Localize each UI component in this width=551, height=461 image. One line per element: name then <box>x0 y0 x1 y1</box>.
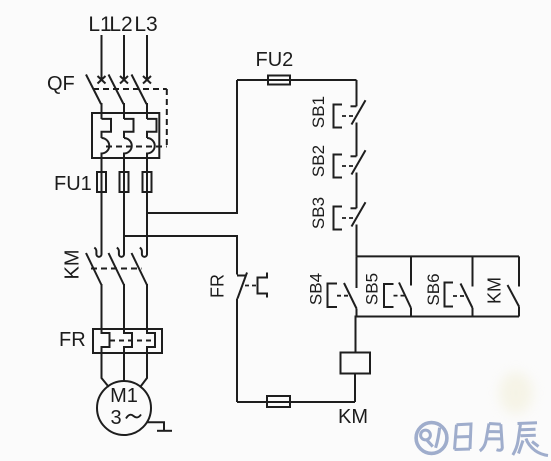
pushbutton SB1 plunger bracket <box>334 105 343 128</box>
breaker QF lever pole3 <box>132 75 147 105</box>
pushbutton SB3 NC tick <box>351 207 357 209</box>
thermal relay FR NC actuator dashed <box>245 285 257 287</box>
svg-text:FU2: FU2 <box>256 49 294 71</box>
watermark logo tail <box>426 439 433 446</box>
wire FR contact to bottom <box>236 299 238 403</box>
breaker QF contact cross pole1 <box>98 76 106 84</box>
thermal relay FR heater pole1 <box>102 329 110 353</box>
contactor KM main contact lever pole2 <box>109 253 125 285</box>
branch SB6 lower terminal <box>472 308 474 317</box>
breaker QF lever pole2 <box>109 75 124 105</box>
watermark logo ring <box>421 430 431 440</box>
pushbutton SB1 NC tick <box>351 105 357 107</box>
wire pole3 lever to box <box>146 103 148 119</box>
wire pole3 fuse to KM contact <box>146 192 148 248</box>
svg-text:M1: M1 <box>110 385 138 407</box>
wire SB4 lower to coil <box>356 309 357 353</box>
pushbutton SB6 NO lever <box>461 284 473 309</box>
breaker QF thermal release pole1 <box>102 119 112 138</box>
breaker QF magnetic release pole2 <box>124 138 132 158</box>
contactor KM aux lower terminal <box>518 307 520 317</box>
motor ground wire <box>148 422 165 431</box>
ground bar <box>157 430 172 432</box>
thermal relay FR heater pole2 <box>124 329 132 353</box>
parallel block bottom rail <box>357 316 520 318</box>
pushbutton SB2 NC tick <box>351 155 357 157</box>
thermal relay FR link dashed <box>110 340 154 342</box>
wire L1 drop <box>101 35 103 80</box>
pushbutton SB6 plunger dashed <box>453 295 465 297</box>
svg-text:3: 3 <box>110 407 121 429</box>
contactor KM main contact lever pole3 <box>132 253 148 285</box>
contactor KM main contact cup pole3 <box>140 246 147 257</box>
wire rail SB3 to parallel block <box>356 225 358 257</box>
motor M1 circle <box>97 381 151 435</box>
wire pole1 KM to FR box <box>101 284 103 329</box>
svg-text:L2: L2 <box>109 13 132 36</box>
label tilde <box>126 415 141 419</box>
breaker QF contact cross pole2 <box>120 76 128 84</box>
wire coil to bottom <box>354 374 356 403</box>
fuse FU1 pole2 <box>120 172 129 192</box>
svg-text:KM: KM <box>62 250 84 280</box>
wire rail SB1 to SB2 <box>356 123 358 157</box>
contactor KM main contact cup pole2 <box>117 246 124 257</box>
svg-text:FR: FR <box>59 329 86 351</box>
breaker QF thermal release pole2 <box>124 119 134 138</box>
wire pole1 box to fuse <box>101 158 103 192</box>
wire pole2 KM to FR box <box>123 284 125 329</box>
pushbutton SB5 plunger dashed <box>394 295 405 297</box>
thermal relay FR NC contact lever <box>238 273 248 299</box>
svg-text:SB2: SB2 <box>309 145 328 177</box>
wire pole2 lever to box <box>123 103 125 119</box>
fuse FU1 pole1 <box>97 172 106 192</box>
pushbutton SB5 NO lever <box>399 283 411 309</box>
svg-text:SB3: SB3 <box>309 197 328 229</box>
branch SB5 lower terminal <box>410 308 412 317</box>
branch SB6 upper terminal <box>472 256 474 286</box>
watermark logo circle <box>416 423 548 456</box>
contactor KM mechanical link dashed <box>91 268 142 270</box>
wire pole3 box to fuse <box>146 158 148 192</box>
wire pole3 FR to motor <box>140 353 147 387</box>
wire pole1 FR to motor <box>102 353 109 387</box>
wire pole2 box to fuse <box>123 158 125 192</box>
wire L2 drop <box>123 35 125 80</box>
pushbutton SB6 plunger bracket <box>445 283 454 307</box>
wire right rail to SB1 <box>356 80 358 106</box>
svg-text:SB1: SB1 <box>309 96 328 128</box>
parallel block top rail <box>357 255 520 257</box>
breaker QF magnetic release pole3 <box>147 138 155 158</box>
svg-text:KM: KM <box>485 277 505 304</box>
fuse FU2 lower <box>267 396 290 407</box>
svg-text:SB6: SB6 <box>424 273 443 305</box>
breaker QF release box <box>92 113 159 158</box>
watermark logo slash <box>436 428 440 448</box>
wire pole1 fuse to KM contact <box>101 192 103 248</box>
wire L3 drop <box>146 35 148 80</box>
pushbutton SB3 NC lever <box>352 202 366 226</box>
svg-text:SB5: SB5 <box>363 273 382 305</box>
pushbutton SB4 plunger dashed <box>337 295 349 297</box>
wire rail SB2 to SB3 <box>356 173 358 209</box>
wire pole2 FR to motor <box>123 353 125 381</box>
branch SB5 upper terminal <box>410 256 412 285</box>
svg-text:L1: L1 <box>88 13 111 36</box>
wire pole3 KM to FR box <box>146 284 148 329</box>
fuse FU2 <box>268 76 290 85</box>
pushbutton SB2 plunger bracket <box>334 155 343 178</box>
contactor KM aux contact lever <box>508 285 520 307</box>
watermark char chen <box>513 423 548 456</box>
pushbutton SB1 NC lever <box>352 100 366 124</box>
svg-text:L3: L3 <box>134 13 157 36</box>
contactor KM aux contact upper terminal <box>518 256 520 286</box>
breaker QF trip linkage dashed vertical <box>166 89 168 147</box>
pushbutton SB3 plunger bracket <box>334 207 343 230</box>
pushbutton SB4 plunger bracket <box>328 284 338 308</box>
breaker QF thermal release pole3 <box>147 119 157 138</box>
svg-text:FU1: FU1 <box>54 173 92 195</box>
control top wire with FU2 <box>237 79 357 81</box>
wire control tap from L3 <box>147 80 237 213</box>
background tint patch <box>499 372 533 414</box>
wire pole1 lever to box <box>101 103 103 119</box>
svg-text:QF: QF <box>47 73 75 95</box>
breaker QF trip line dashed <box>106 146 167 148</box>
breaker QF contact cross pole3 <box>143 76 151 84</box>
pushbutton SB2 NC lever <box>352 150 366 174</box>
breaker QF mechanical link dashed <box>93 88 167 90</box>
pushbutton SB4 NO lever <box>344 283 357 309</box>
thermal relay FR heater pole3 <box>147 329 155 353</box>
thermal relay FR NC contact tick <box>237 275 246 277</box>
thermal relay FR NC actuator hook <box>258 273 268 298</box>
contactor KM main contact cup pole1 <box>94 246 101 257</box>
pushbutton SB1 plunger dashed <box>342 115 355 117</box>
wire control tap from L2 <box>124 236 237 275</box>
thermal relay FR box <box>93 329 162 353</box>
watermark char yue <box>480 424 503 452</box>
pushbutton SB3 plunger dashed <box>342 217 355 219</box>
breaker QF magnetic release pole1 <box>102 138 110 158</box>
breaker QF lever pole1 <box>86 75 101 105</box>
svg-text:FR: FR <box>208 274 228 298</box>
contactor KM coil <box>341 353 371 374</box>
contactor KM main contact lever pole1 <box>86 253 102 285</box>
wire pole2 fuse to KM contact (junction at control tap) <box>123 192 125 248</box>
pushbutton SB5 plunger bracket <box>384 284 394 307</box>
pushbutton SB4 upper terminal <box>356 256 358 288</box>
pushbutton SB2 plunger dashed <box>342 165 355 167</box>
svg-text:SB4: SB4 <box>307 273 326 305</box>
svg-text:KM: KM <box>338 406 368 428</box>
control bottom wire <box>237 401 355 403</box>
fuse FU1 pole3 <box>143 172 152 192</box>
watermark char ri <box>455 424 472 450</box>
